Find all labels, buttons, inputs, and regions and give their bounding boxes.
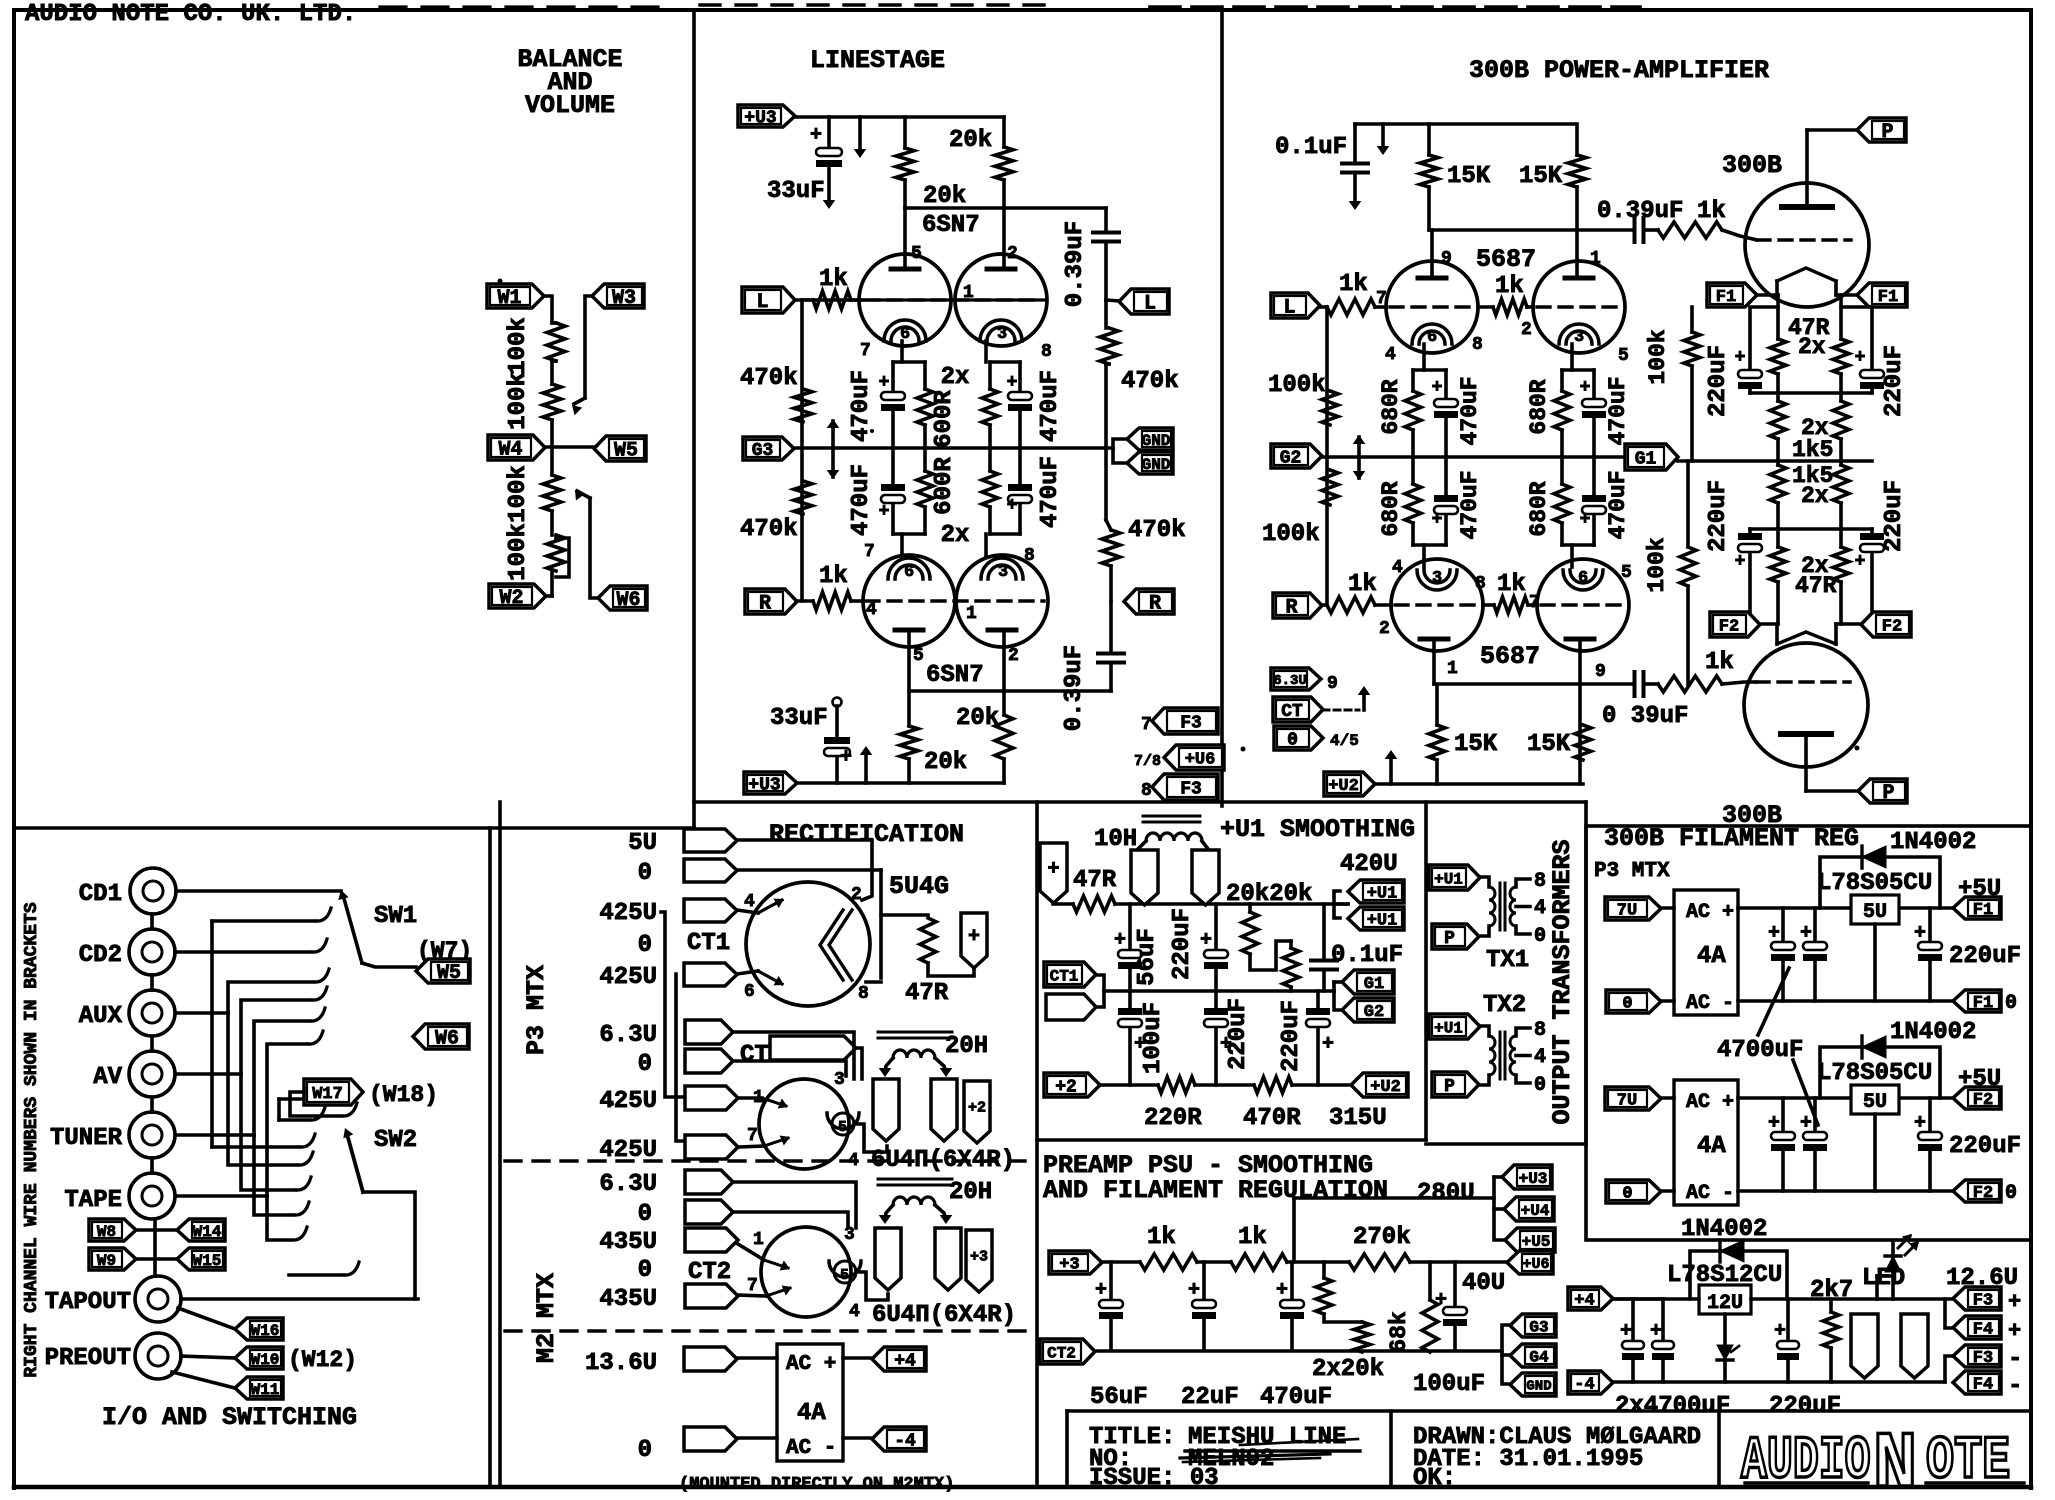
capacitor 220uF ne — [1841, 307, 1884, 393]
label 1k psu2 — [1238, 1224, 1267, 1251]
svg-text:3: 3 — [997, 325, 1007, 344]
svg-text:+: + — [840, 746, 852, 769]
resistor 2x1k5 b — [1833, 401, 1849, 461]
svg-text:4: 4 — [848, 1151, 859, 1171]
label LED — [1862, 1265, 1905, 1292]
connector F1 — [1953, 897, 2001, 920]
label 425U d — [599, 1137, 657, 1164]
connector P bot — [1858, 779, 1907, 805]
svg-text:470k: 470k — [740, 516, 798, 543]
connector G1 — [1625, 444, 1678, 470]
svg-text:F1: F1 — [1973, 994, 1993, 1013]
label 220uF sw — [1705, 480, 1732, 552]
connector F2 right — [1861, 612, 1911, 637]
connector +U5 psu — [1505, 1228, 1555, 1252]
connector 425V a — [684, 892, 755, 922]
label 6U4P b — [872, 1302, 1016, 1329]
svg-text:315U: 315U — [1329, 1105, 1387, 1132]
label 1k mid top — [1495, 273, 1524, 300]
pot bypass loop — [556, 538, 569, 577]
svg-text:F3: F3 — [1180, 713, 1202, 733]
svg-text:0: 0 — [638, 1201, 652, 1228]
label 300B bot — [1722, 801, 1782, 830]
svg-text:13.6U: 13.6U — [585, 1350, 657, 1377]
cathode arc V1b — [980, 320, 1022, 344]
anode arrows 5U4G — [758, 899, 784, 986]
svg-text:2: 2 — [1379, 619, 1390, 639]
svg-text:G2: G2 — [1364, 1003, 1384, 1022]
svg-text:5: 5 — [1621, 563, 1632, 583]
svg-text:+: + — [1435, 1289, 1447, 1312]
rectifier box 4A F2 — [1674, 1080, 1738, 1205]
svg-text:CT2: CT2 — [1047, 1344, 1076, 1362]
svg-text:AC -: AC - — [786, 1437, 836, 1460]
svg-text:P3 MTX: P3 MTX — [1594, 860, 1670, 883]
svg-text:1k: 1k — [1705, 649, 1734, 676]
wire plate to P — [1807, 130, 1857, 207]
resistor 2x1k5 a — [1770, 401, 1786, 461]
connector +U1 a — [1348, 880, 1404, 904]
connector F3 + — [1953, 1287, 2021, 1315]
wire fuse +4 — [843, 1356, 872, 1360]
svg-text:0.39uF: 0.39uF — [1062, 221, 1089, 307]
wire — [552, 323, 556, 384]
connector F2 left — [1710, 612, 1760, 637]
resistor 1k psu1 — [1140, 1254, 1197, 1270]
resistor 20k C — [900, 726, 918, 783]
svg-text:+: + — [1774, 1320, 1786, 1343]
LED — [1877, 1234, 1919, 1299]
svg-text:0.1uF: 0.1uF — [1275, 134, 1347, 161]
capacitor 4700uF d — [1650, 1299, 1674, 1382]
arrow down from rail — [854, 117, 867, 158]
svg-text:+: + — [968, 926, 980, 949]
wire plate to P bot — [1806, 734, 1858, 791]
divider balance/linestage — [692, 10, 696, 828]
resistor 47R rect — [920, 918, 974, 976]
label 435U b — [599, 1286, 657, 1313]
svg-text:+U2: +U2 — [1328, 777, 1359, 796]
wire rail B2 — [1429, 228, 1632, 232]
connector P top — [1857, 118, 1906, 144]
cathode arc V2a — [888, 558, 930, 582]
svg-text:56uF: 56uF — [1090, 1384, 1148, 1411]
svg-text:TX1: TX1 — [1486, 947, 1529, 974]
RCA jack CD1 — [130, 868, 176, 914]
svg-text:20k: 20k — [956, 705, 999, 732]
svg-text:9: 9 — [1441, 249, 1452, 269]
svg-text:-: - — [2008, 1346, 2022, 1373]
label 100k C — [505, 465, 532, 523]
resistor 1k grid300B bot — [1658, 676, 1756, 692]
svg-text:+: + — [810, 124, 822, 147]
svg-text:15K: 15K — [1447, 163, 1491, 190]
pins 5U4G — [851, 885, 869, 1004]
bracket G3G4GND — [1502, 1325, 1510, 1384]
svg-text:RECTIFICATION: RECTIFICATION — [769, 820, 964, 849]
wire SW2 out — [363, 1192, 415, 1299]
svg-text:+: + — [1800, 1112, 1812, 1135]
svg-text:F1: F1 — [1716, 288, 1736, 307]
svg-text:+: + — [1914, 922, 1926, 945]
wire reg gnd F2 — [1873, 1114, 1877, 1191]
svg-text:470uF: 470uF — [1260, 1384, 1332, 1411]
capacitor 470uF / resistor 600R top-right — [982, 341, 1032, 448]
cathode arc V4a — [1417, 569, 1457, 590]
label TX1 — [1486, 947, 1529, 974]
resistor 1k R — [796, 592, 863, 610]
label (W7) — [417, 938, 472, 964]
svg-text:5U: 5U — [628, 830, 657, 857]
svg-text:0: 0 — [2005, 1182, 2017, 1205]
svg-text:AC -: AC - — [1686, 992, 1734, 1015]
svg-text:N: N — [1873, 1420, 1917, 1500]
label 220R — [1144, 1105, 1202, 1132]
label 1k pa2 — [1348, 571, 1377, 598]
wire 12V rail — [1613, 1297, 1953, 1301]
sheet title AUDIO NOTE CO UK LTD — [25, 1, 356, 28]
resistor 1k grid300B top — [1658, 222, 1757, 240]
label SW2 — [374, 1127, 417, 1154]
svg-text:7: 7 — [860, 341, 871, 361]
regulator 5V box F2 — [1851, 1085, 1899, 1114]
connector 425V d — [685, 1126, 758, 1159]
RCA jack TAPE — [129, 1173, 175, 1219]
connector W16 — [235, 1318, 283, 1340]
resistor 20k D — [995, 715, 1013, 783]
svg-text:0: 0 — [1622, 995, 1632, 1014]
svg-text:220uF: 220uF — [1949, 1133, 2021, 1160]
svg-text:0: 0 — [1534, 925, 1546, 948]
svg-text:+: + — [1007, 496, 1018, 516]
svg-text:20k: 20k — [924, 749, 967, 776]
svg-text:+: + — [1095, 1279, 1107, 1302]
svg-text:8: 8 — [1475, 574, 1486, 594]
svg-text:15K: 15K — [1454, 731, 1498, 758]
plate bars V1 — [891, 267, 1015, 272]
wire +4 node — [1633, 1297, 1663, 1301]
svg-text:0.39uF: 0.39uF — [1597, 198, 1683, 225]
plate bars 5687 bot — [1420, 637, 1594, 642]
svg-text:W5: W5 — [437, 962, 461, 985]
svg-text:+: + — [1620, 1320, 1632, 1343]
label DRAWN — [1413, 1424, 1701, 1451]
svg-text:470k: 470k — [1121, 368, 1179, 395]
label 470uF tr pa — [1605, 376, 1631, 445]
label 300B FILAMENT REG — [1604, 824, 1859, 853]
double arrow pa — [1353, 435, 1366, 480]
capacitor 4700uF b F2 — [1800, 1098, 1827, 1191]
svg-text:G1: G1 — [1364, 975, 1384, 994]
svg-text:20k: 20k — [949, 127, 992, 154]
svg-text:+: + — [1735, 348, 1746, 368]
svg-text:+2: +2 — [968, 1099, 986, 1116]
connector +2 sm — [1044, 1073, 1100, 1097]
label 1N4002 F1 — [1890, 829, 1976, 856]
label 15K D — [1527, 731, 1571, 758]
wire W8-W14 — [136, 1228, 177, 1232]
svg-text:1N4002: 1N4002 — [1890, 1019, 1976, 1046]
label 20H a — [945, 1033, 988, 1060]
wire W1 to pot chain — [544, 296, 552, 323]
grid dashed V3 — [1390, 305, 1620, 308]
bracket G12 — [1334, 982, 1342, 1010]
resistor 680R / capacitor 470uF tr — [1554, 344, 1606, 457]
svg-text:4: 4 — [1534, 897, 1546, 920]
connector 7V F1 — [1605, 897, 1661, 921]
svg-text:4A: 4A — [1697, 943, 1726, 970]
wire W10 — [181, 1356, 235, 1358]
RCA jack TAPOUT — [135, 1276, 181, 1322]
svg-text:W14: W14 — [193, 1223, 222, 1241]
svg-text:SW2: SW2 — [374, 1127, 417, 1154]
svg-text:CT: CT — [1281, 702, 1303, 722]
svg-text:(MOUNTED DIRECTLY ON M2MTX): (MOUNTED DIRECTLY ON M2MTX) — [679, 1475, 954, 1494]
connector +U3 top — [738, 105, 795, 128]
label TX2 — [1483, 992, 1526, 1019]
label 0 d — [638, 1437, 652, 1464]
svg-text:F4: F4 — [1973, 1376, 1993, 1395]
label 470uF psu — [1260, 1384, 1332, 1411]
label 0.39uF bot — [1061, 645, 1088, 731]
svg-text:100uF: 100uF — [1140, 1002, 1167, 1074]
connector F1 right — [1857, 283, 1907, 307]
label 300B top — [1722, 151, 1782, 180]
svg-text:GND: GND — [1142, 456, 1171, 474]
connector W15 — [177, 1248, 225, 1270]
label 33uF bot — [770, 705, 828, 732]
label 13.6U — [585, 1350, 657, 1377]
svg-text:6.3U: 6.3U — [599, 1171, 657, 1198]
label I/O AND SWITCHING — [102, 1403, 357, 1432]
border noise dashes — [380, 5, 1980, 10]
svg-text:+: + — [879, 502, 890, 522]
svg-text:+2: +2 — [1055, 1077, 1077, 1097]
svg-text:AUDIO NOTE CO. UK. LTD.: AUDIO NOTE CO. UK. LTD. — [25, 1, 356, 28]
svg-text:470uF: 470uF — [1457, 376, 1483, 445]
svg-text:2: 2 — [851, 885, 862, 905]
svg-text:6: 6 — [744, 982, 755, 1002]
resistor 15K C — [1429, 687, 1445, 784]
svg-text:435U: 435U — [599, 1286, 657, 1313]
label 280U — [1417, 1180, 1475, 1207]
capacitor 220uF se — [1855, 529, 1884, 624]
svg-text:1: 1 — [1447, 659, 1458, 679]
connector F3 b — [1141, 774, 1218, 801]
pin 8 — [1041, 342, 1052, 362]
capacitor 220uF nw — [1735, 307, 1778, 393]
svg-text:W4: W4 — [498, 439, 522, 462]
capacitor 4700uF c — [1613, 1299, 1644, 1382]
connector W1 — [487, 284, 544, 310]
svg-text:7: 7 — [1376, 289, 1387, 309]
connector GND 2 — [1127, 452, 1173, 474]
svg-text:+: + — [1432, 510, 1443, 530]
svg-text:+U3: +U3 — [748, 775, 780, 795]
wire plate V3a — [1430, 230, 1434, 278]
connector W4 — [488, 435, 545, 462]
svg-text:270k: 270k — [1353, 1224, 1411, 1251]
svg-text:M2 MTX: M2 MTX — [532, 1273, 561, 1363]
connector CT1b — [1046, 994, 1096, 1020]
wire G3 gnd rail — [794, 446, 1113, 450]
cathode arc V2b — [981, 558, 1023, 582]
svg-text:L78S05CU: L78S05CU — [1817, 870, 1932, 897]
svg-text:R: R — [759, 593, 771, 616]
wire G2 rail — [1322, 455, 1625, 459]
wire bus AUX — [176, 969, 329, 1165]
connector L right — [1119, 289, 1169, 316]
noise dots — [498, 279, 1860, 1107]
label DATE — [1413, 1446, 1643, 1473]
svg-text:100k: 100k — [505, 317, 532, 375]
potentiometer 100k upper B — [543, 384, 561, 420]
svg-text:P3 MTX: P3 MTX — [522, 965, 551, 1055]
label 47R rect — [905, 980, 949, 1007]
label MEISHU LINE — [1185, 1424, 1360, 1451]
label 6.3U a — [599, 1022, 657, 1049]
box output transformers — [1426, 802, 1586, 1144]
resistor 20k sm1 — [1242, 904, 1291, 970]
svg-text:+U6: +U6 — [1185, 751, 1216, 770]
wire +U3 rail — [795, 115, 1004, 119]
svg-text:8: 8 — [1041, 342, 1052, 362]
svg-text:0 39uF: 0 39uF — [1602, 703, 1688, 730]
label 1k L — [819, 266, 848, 293]
cathode chevrons 5U4G — [820, 910, 852, 980]
wire plate feeds 5U4G — [737, 910, 758, 974]
svg-text:7: 7 — [747, 1276, 758, 1296]
wire W9-W15 — [136, 1257, 177, 1261]
choke 20H b — [878, 1179, 952, 1224]
svg-text:1N4002: 1N4002 — [1890, 829, 1976, 856]
svg-text:4700uF: 4700uF — [1717, 1037, 1803, 1064]
plate bars 5687 top — [1418, 276, 1593, 281]
svg-text:20k: 20k — [923, 183, 966, 210]
svg-text:220uF: 220uF — [1225, 998, 1252, 1070]
svg-text:5687: 5687 — [1480, 642, 1540, 671]
label 100k pa1 — [1268, 372, 1326, 399]
connector W17 — [304, 1079, 438, 1108]
wire — [1106, 300, 1119, 301]
connector 435V a — [685, 1228, 764, 1252]
label 12.6U — [1946, 1265, 2018, 1292]
wire W4 W5 node — [545, 445, 594, 449]
label 0.39uF top — [1062, 221, 1089, 307]
connector + rect — [961, 913, 987, 968]
pin 2b — [1008, 646, 1019, 666]
tube V1b 6SN7 — [955, 254, 1047, 346]
svg-text:+: + — [2008, 1290, 2021, 1315]
connector + sm — [1040, 843, 1067, 903]
gnd bracket — [1113, 439, 1127, 463]
label 100uF psu — [1413, 1371, 1485, 1398]
label 470uF tl — [848, 370, 875, 442]
svg-text:+U1: +U1 — [1367, 912, 1398, 931]
svg-text:7/8: 7/8 — [1134, 753, 1161, 770]
resistor 100k rt — [1684, 307, 1700, 461]
svg-text:PREOUT: PREOUT — [45, 1345, 131, 1372]
fuse box 4A — [777, 1344, 843, 1461]
label 68k — [1386, 1311, 1412, 1353]
svg-text:12U: 12U — [1707, 1292, 1743, 1315]
divider linestage/poweramp — [1220, 10, 1224, 806]
connector +U6 — [1507, 1251, 1553, 1274]
label 0.1uF — [1275, 134, 1347, 161]
svg-text:+: + — [1768, 922, 1780, 945]
label 6U4P a — [871, 1147, 1015, 1174]
label P3 MTX fr — [1594, 860, 1670, 883]
svg-text:+: + — [2008, 1319, 2021, 1344]
wire CD1 to SW1 — [176, 889, 341, 893]
RCA jack CD2 — [129, 929, 175, 975]
svg-text:5: 5 — [911, 244, 922, 264]
wire reg gnd F1 — [1873, 924, 1877, 1001]
resistor 680R / capacitor 470uF tl — [1405, 344, 1458, 457]
svg-text:GND: GND — [1142, 432, 1171, 450]
capacitor 0.39uF coupling bot — [1635, 672, 1659, 696]
label 47R 2x top — [1788, 315, 1830, 360]
label 5687 bot — [1480, 642, 1540, 671]
wire contact sw2 extra — [279, 1086, 343, 1120]
wire SW1 out to W5 — [362, 963, 416, 967]
svg-text:CD2: CD2 — [79, 942, 122, 969]
svg-text:1k: 1k — [1238, 1224, 1267, 1251]
svg-text:+: + — [1800, 922, 1812, 945]
capacitor 4700uF a F2 — [1768, 1098, 1795, 1191]
label BALANCE AND VOLUME — [517, 45, 622, 120]
label SW1 — [374, 903, 417, 930]
svg-text:8: 8 — [1534, 1019, 1546, 1042]
resistor 680R / capacitor 470uF bl — [1405, 457, 1458, 567]
svg-text:1N4002: 1N4002 — [1681, 1216, 1767, 1243]
label 470R — [1243, 1105, 1301, 1132]
capacitor 33uF bot — [824, 698, 852, 784]
svg-text:2x4700uF: 2x4700uF — [1615, 1393, 1730, 1420]
svg-text:F3: F3 — [1180, 779, 1202, 799]
tube V3b 5687 — [1533, 261, 1625, 353]
svg-text:0: 0 — [638, 1257, 652, 1284]
resistor 1k5 d — [1833, 461, 1849, 529]
regulator 12V box — [1699, 1285, 1751, 1315]
connector 6.3V a — [685, 1020, 733, 1044]
svg-text:0: 0 — [1534, 1074, 1546, 1097]
svg-text:100k: 100k — [1645, 329, 1671, 384]
label L78S05CU F2 — [1817, 1060, 1932, 1087]
label 15K C — [1454, 731, 1498, 758]
svg-text:-: - — [2008, 1373, 2022, 1400]
connector W6 io — [413, 1024, 469, 1051]
svg-text:AUDIO: AUDIO — [1741, 1427, 1871, 1496]
svg-text:47R: 47R — [1073, 867, 1117, 894]
cathode arc V4b — [1563, 569, 1603, 590]
wire G1 rail right — [1678, 459, 1872, 463]
label TITLE — [1089, 1424, 1175, 1451]
connector 425V b — [684, 963, 755, 1002]
svg-text:+: + — [1580, 510, 1591, 530]
RCA jack TUNER — [129, 1112, 175, 1158]
label 6SN7 bot — [926, 662, 984, 689]
svg-text:W1: W1 — [497, 287, 521, 310]
label 680R tr — [1526, 379, 1552, 434]
svg-text:2x: 2x — [941, 364, 970, 391]
wire in F2 — [1661, 1098, 1674, 1191]
capacitor 470uF / resistor 600R bot-left — [881, 448, 933, 556]
switch SW1 lever — [338, 890, 362, 963]
wire fil rail right — [1839, 295, 1843, 339]
label P3 MTX — [522, 965, 551, 1055]
connector 0 b — [685, 1049, 733, 1073]
